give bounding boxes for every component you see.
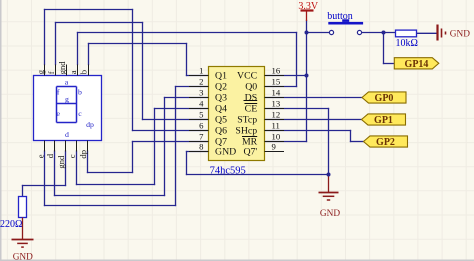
wire net g: left vertical to display pin g [44,10,46,65]
svg-text:GND: GND [215,146,236,157]
svg-text:b: b [79,70,89,74]
svg-text:GND: GND [320,209,340,219]
svg-text:Q2: Q2 [215,81,227,92]
IC right pins 16-9 [265,76,285,152]
wire net 3.3V: main vertical [306,21,308,142]
svg-text:8: 8 [199,142,204,152]
wire net f: right vertical to IC pin 5 [142,23,144,120]
pin name CE overline [245,103,258,105]
ground stem below R220 [22,218,24,240]
resistor R220 body [19,197,27,218]
svg-text:GND: GND [450,30,470,40]
wire IC pin14 row to port GP0 [265,97,363,99]
svg-text:d: d [45,153,55,158]
display U2 seven segment box [34,76,102,141]
port GP14 [394,58,439,69]
wire net c: display pin c down [76,151,78,185]
wire net e: display pin e down [44,151,46,206]
pin name MR overline [242,136,257,138]
wire IC pin10 row [265,141,307,143]
svg-text:d: d [65,130,69,139]
wire IC pin13 row [265,108,329,110]
svg-text:4: 4 [199,99,204,109]
wire net e: vertical up to IC pin 2 [175,87,177,206]
ground stem below IC [328,175,330,193]
wire net seg-common: display gnd pin down [65,151,67,186]
wire net a: H3 horizontal [78,32,297,34]
wire IC pin6 row [133,130,209,132]
wire net dp: horizontal [88,172,133,174]
port GP0 [362,92,406,103]
wire net gnd8: vertical down from IC pin 8 [186,152,188,175]
svg-text:2: 2 [199,77,203,87]
svg-text:CE: CE [245,103,258,114]
port GP2 [364,136,408,147]
svg-text:Q6: Q6 [215,125,227,136]
wire IC pin8 row [187,151,209,153]
wire net 3.3V: to button left contact [307,32,330,34]
svg-text:c: c [67,154,77,158]
svg-text:dp: dp [86,120,94,129]
wire net gnd8: horizontal to ground node [187,174,329,176]
screen edge strips [0,0,2,261]
wire IC pin1 row [187,75,209,77]
svg-text:GND: GND [13,252,33,261]
svg-text:c: c [78,109,82,118]
wire net b: left vertical [88,44,90,65]
svg-text:5: 5 [199,110,203,120]
svg-text:g: g [35,69,45,74]
ground bars below IC [319,193,339,201]
svg-text:Q0: Q0 [245,81,257,92]
svg-text:GP1: GP1 [374,115,393,126]
svg-text:Q4: Q4 [215,103,227,114]
wire net d: vertical up to IC pin 3 [164,98,166,196]
svg-text:6: 6 [199,121,204,131]
svg-text:10kΩ: 10kΩ [396,38,418,49]
button actuator knob [342,19,349,22]
wire net GP2: horizontal to tag [351,141,364,143]
wire net g: right vertical to IC pin 6 [132,10,134,131]
wire net a: left vertical [77,33,79,65]
display top pins g f gnd a b [45,65,89,76]
wire net a: right vertical to IC pin 15 [296,33,298,87]
IC right pin numbers 16-9 [272,66,281,152]
svg-text:11: 11 [272,121,280,131]
wire net g: H1 top horizontal [45,9,133,11]
svg-text:13: 13 [272,99,281,109]
wire net b: H4 horizontal [89,43,187,45]
resistor R10k body [396,30,417,37]
svg-text:12: 12 [272,110,281,120]
junction node button/R10k/GP14 [382,31,386,35]
svg-text:f: f [46,71,56,74]
svg-text:gnd: gnd [56,155,66,169]
wire IC pin2 row [176,86,209,88]
svg-text:GP0: GP0 [375,93,394,104]
display bottom pins e d gnd c dp [45,141,88,152]
svg-text:16: 16 [272,66,281,76]
IC left pin numbers 1-8 [199,66,204,152]
svg-text:1: 1 [199,66,203,76]
svg-text:e: e [35,154,45,158]
IC right pin names [235,70,257,157]
button right contact [357,30,361,34]
wire net c: vertical up to IC pin 4 [154,109,156,185]
svg-text:a: a [68,70,78,74]
svg-text:Q3: Q3 [215,92,227,103]
button actuator bar [328,22,363,25]
svg-text:VCC: VCC [237,70,257,81]
svg-text:Q1: Q1 [215,70,227,81]
wire net seg-common: stem into resistor R220 [22,186,24,197]
IC U1 74hc595 body [209,67,265,161]
svg-text:Q5: Q5 [215,114,227,125]
wire net GP14: horizontal to tag [384,63,395,65]
junction node ground below IC [327,173,331,177]
seven segment glyph [57,87,77,123]
wire net dp: display pin dp down [87,151,89,173]
svg-text:Q7': Q7' [243,146,257,157]
svg-text:3: 3 [199,88,203,98]
IC left pin names [215,70,236,157]
svg-text:3.3V: 3.3V [298,1,319,12]
svg-text:10: 10 [272,132,281,142]
display segment labels [56,78,94,140]
wire net c: horizontal to Q4 vertical [77,184,155,186]
svg-text:dp: dp [78,150,88,159]
svg-text:7: 7 [199,132,204,142]
wire net f: H2 horizontal [56,22,143,24]
power port 3.3V bar [301,9,314,11]
wire net d: display pin d down [54,151,56,196]
wire IC pin12 row to port GP1 [265,119,362,121]
display rotated bottom pin labels [35,150,88,169]
svg-text:gnd: gnd [57,61,67,75]
svg-text:220Ω: 220Ω [0,219,22,230]
ground bars below R220 [12,240,34,248]
svg-text:f: f [57,88,60,97]
IC left pins 1-8 [189,76,209,152]
display rotated top pin labels [35,61,88,75]
power port 3.3V stem [306,11,308,22]
wire net d: horizontal to Q3 vertical [55,195,165,197]
svg-text:15: 15 [272,77,281,87]
svg-text:14: 14 [272,88,281,98]
wire button right contact to R10k [362,32,396,34]
pin name DS underline [244,100,258,102]
port GP1 [362,114,406,125]
svg-text:a: a [65,78,69,87]
wire IC pin7 row [133,141,209,143]
svg-text:g: g [65,95,69,104]
svg-text:9: 9 [272,142,276,152]
wire IC pin11 row [265,130,351,132]
junction node 3.3V/button [305,31,309,35]
svg-text:SHcp: SHcp [235,125,257,136]
svg-text:GP2: GP2 [376,137,395,148]
svg-text:STcp: STcp [237,114,257,125]
button left contact [329,30,333,34]
wire net b: right vertical to IC pin 1 [186,44,188,76]
wire net seg-common: horizontal to resistor R220 [23,185,66,187]
junction node VCC pin16 [305,74,309,78]
wire net f: left vertical [55,23,57,65]
wire IC pin4 row [155,108,209,110]
wire net dp: vertical up to IC pin 7 [132,142,134,173]
wire IC pin16 row to 3.3V vertical [265,75,307,77]
wire net e: horizontal to Q2 vertical [45,205,176,207]
wire net GP14: vertical from junction [383,33,385,64]
wire resistor R10k to ground [417,32,438,34]
svg-text:DS: DS [245,92,258,103]
wire IC pin5 row [143,119,209,121]
wire net CE: vertical from IC pin 13 down to ground node [328,109,330,175]
wire net GP2: jog vertical [350,131,352,142]
wire IC pin3 row [165,97,209,99]
ground symbol right of R10k [438,25,446,41]
svg-text:74hc595: 74hc595 [210,166,246,177]
svg-text:e: e [56,109,60,118]
wire IC pin15 row [265,86,297,88]
svg-text:GP14: GP14 [405,59,429,70]
svg-text:b: b [78,88,82,97]
